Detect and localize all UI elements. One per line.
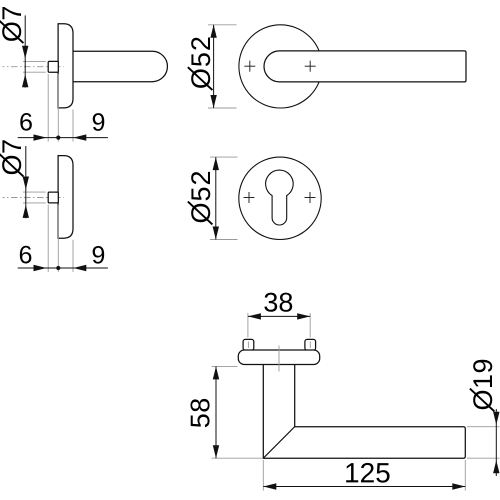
screw cross left (244, 61, 255, 72)
lever handle front (264, 51, 466, 82)
bend miter line (263, 427, 294, 459)
centerline vertical (278, 346, 280, 372)
extension line left (47, 205, 49, 272)
rose bar top view (238, 350, 319, 365)
dimension 58 (fig5) (190, 366, 263, 458)
junction dot (56, 266, 60, 270)
label O7 (0, 140, 23, 176)
extension line bottom (467, 457, 500, 459)
extension line top (23, 191, 46, 193)
arrow down (213, 445, 219, 458)
label 6 (20, 113, 32, 131)
extension line top (212, 365, 238, 367)
dimension line (248, 315, 310, 317)
dimension O19 (fig5) (467, 360, 500, 476)
extension line middle (57, 205, 59, 272)
pin centerline right (309, 342, 311, 349)
extension line left (247, 313, 249, 338)
extension line bottom (210, 239, 238, 241)
arrow down (22, 46, 28, 59)
arrow right (34, 134, 47, 140)
arrow right (34, 265, 47, 271)
label 6 (20, 246, 32, 264)
dimension 38 (fig5) (248, 293, 310, 338)
arrow down (23, 177, 29, 190)
arrow right (452, 483, 465, 489)
arrow left (73, 265, 86, 271)
junction dot (56, 136, 60, 140)
figure 3: key rose, side view (3, 156, 74, 239)
figure 5: lever handle, top view (238, 339, 465, 458)
handle neck and grip outline (263, 364, 465, 458)
dimension line (213, 25, 215, 108)
extension line left (262, 460, 264, 491)
arrow up (210, 25, 216, 38)
label 38 (264, 293, 292, 312)
extension line right (309, 313, 311, 338)
figure 1: handle on rose, side view (3, 24, 168, 108)
screw cross right (305, 61, 316, 72)
handle grip side (73, 51, 168, 81)
label O52 (188, 172, 213, 225)
dimension line (18, 267, 108, 269)
dimension line (495, 409, 497, 476)
arrow right (297, 313, 310, 319)
spindle square (48, 192, 58, 203)
extension line left (47, 74, 49, 142)
arrow left (248, 313, 261, 319)
spindle centerline (3, 197, 64, 199)
spindle centerline (3, 66, 64, 68)
rose circle (239, 25, 322, 108)
dimension line (18, 137, 108, 139)
extension line top (23, 60, 46, 62)
rose circle (239, 157, 321, 239)
label 9 (93, 113, 105, 131)
figure 2: handle on round rose, front view (239, 25, 466, 108)
fixing pin left (243, 339, 254, 350)
label O7 (0, 7, 23, 43)
dimension O52 (fig4) (188, 157, 238, 239)
rose side profile (58, 24, 73, 108)
fixing pin right (305, 339, 316, 350)
extension line bottom (23, 202, 46, 204)
screw cross left (244, 192, 255, 203)
label 9 (93, 246, 105, 264)
euro profile cylinder hole (266, 170, 294, 225)
dimension 6 / 9 (fig1) (18, 74, 108, 142)
extension line top (208, 24, 237, 26)
arrow up (213, 366, 219, 379)
arrow up (23, 205, 29, 218)
arrow left (263, 483, 276, 489)
dimension 6 / 9 (fig3) (18, 205, 108, 272)
dimension line (263, 486, 465, 488)
arrow up (213, 157, 219, 170)
extension line top (210, 156, 238, 158)
label O19 (470, 360, 495, 412)
arrow left (73, 134, 86, 140)
extension line right (72, 240, 74, 272)
extension line right (72, 110, 74, 142)
extension line middle (57, 74, 59, 142)
dimension O7 (fig1) (0, 7, 46, 88)
dimension O52 (fig2) (188, 25, 237, 108)
arrow down (213, 227, 219, 240)
rose side profile (58, 156, 73, 239)
extension line top (467, 426, 500, 428)
spindle square (48, 61, 58, 72)
extension line bottom (23, 71, 46, 73)
dimension 125 (fig5) (263, 460, 465, 491)
dimension line (25, 146, 27, 218)
label 58 (190, 399, 209, 427)
label O52 (188, 37, 213, 90)
dimension O7 (fig3) (0, 140, 46, 218)
screw cross right (305, 192, 316, 203)
pin centerline left (247, 342, 249, 349)
arrow down (493, 412, 499, 425)
extension line right (464, 460, 466, 491)
label 125 (346, 463, 389, 483)
dimension line (215, 366, 217, 458)
extension line bottom (208, 107, 237, 109)
dimension line (24, 15, 26, 87)
arrow up (493, 460, 499, 473)
arrow down (210, 95, 216, 108)
extension line bottom (212, 457, 264, 459)
arrow up (22, 74, 28, 87)
dimension line (215, 157, 217, 239)
figure 4: key rose with euro profile cylinder hole, front view (239, 157, 321, 239)
